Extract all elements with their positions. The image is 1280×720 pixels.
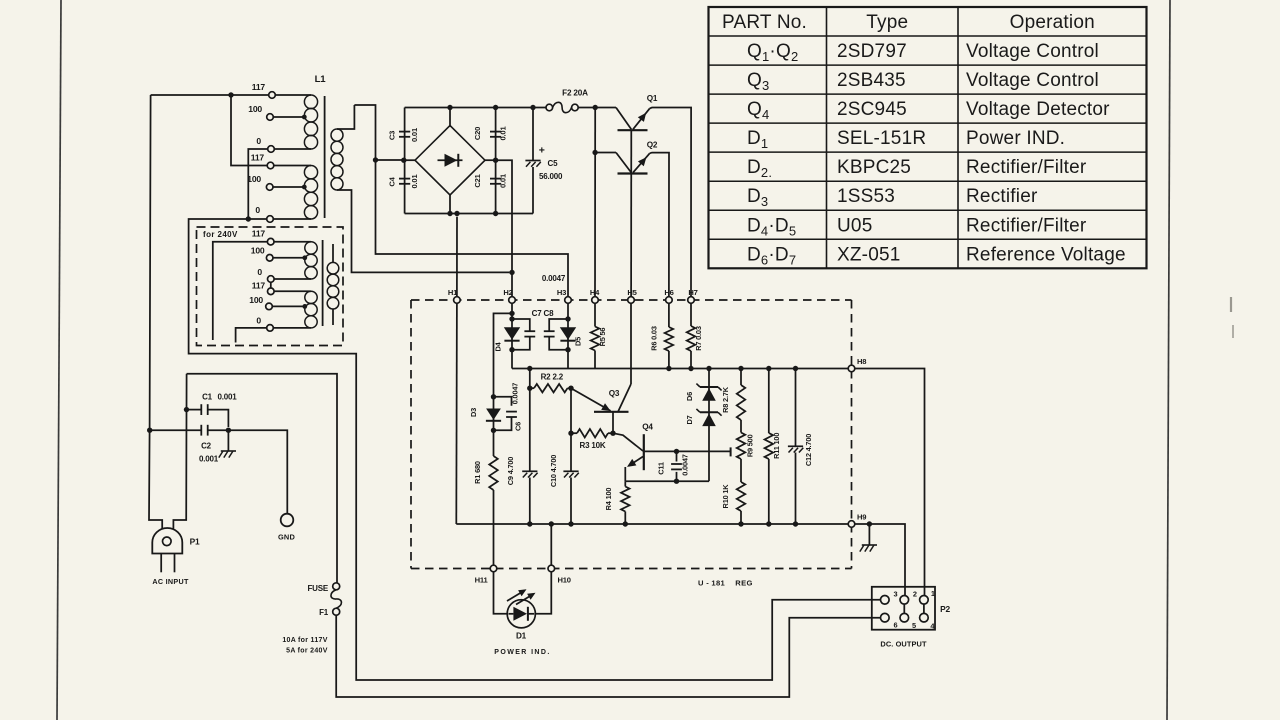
resistor R8	[737, 385, 746, 420]
svg-text:FUSE: FUSE	[307, 584, 328, 593]
svg-text:0.001: 0.001	[199, 455, 219, 464]
svg-text:L1: L1	[315, 74, 327, 85]
wire C9 branch	[529, 369, 531, 472]
node C6 bottom junction	[491, 428, 496, 433]
svg-text:D5: D5	[574, 337, 583, 346]
node H2 wire junction	[509, 270, 514, 275]
wire AC hot down to plug	[149, 95, 162, 529]
svg-text:1SS53: 1SS53	[837, 186, 895, 207]
wire 0 240V B stub	[236, 328, 267, 343]
svg-text:C6: C6	[514, 422, 523, 431]
svg-text:C12 4.700: C12 4.700	[804, 434, 813, 466]
wire bridge top rail	[405, 107, 546, 109]
svg-text:KBPC25: KBPC25	[837, 157, 911, 178]
wire link 0A-117B	[270, 282, 272, 288]
svg-text:0.0047: 0.0047	[542, 274, 566, 283]
svg-text:R1 680: R1 680	[473, 461, 482, 484]
svg-text:Q1·Q2: Q1·Q2	[747, 41, 798, 64]
wire H3 line inside box	[567, 303, 569, 368]
svg-text:117: 117	[252, 82, 266, 92]
core 240V	[322, 240, 324, 326]
wire filter top to fuse	[187, 374, 337, 583]
svg-text:0.0047: 0.0047	[511, 383, 520, 404]
svg-text:0: 0	[256, 136, 261, 146]
wire Q2 emitter to H6 line	[650, 153, 669, 297]
wire bridge right to H2 line	[496, 160, 512, 297]
terminal 0 winding1	[268, 146, 275, 153]
node Q2 collector junction	[592, 150, 597, 155]
LED D1	[494, 572, 508, 614]
parts table	[709, 7, 1147, 268]
wire R11 branch	[768, 369, 770, 434]
svg-text:Voltage Control: Voltage Control	[966, 70, 1099, 91]
pin H5	[628, 297, 635, 304]
svg-text:Voltage Control: Voltage Control	[966, 41, 1099, 62]
svg-text:R3 10K: R3 10K	[580, 441, 606, 450]
svg-text:2SC945: 2SC945	[837, 99, 907, 120]
node bottom rail C9	[527, 521, 532, 526]
svg-text:R7 0.03: R7 0.03	[694, 326, 703, 351]
capacitor C11	[676, 451, 678, 461]
svg-text:2SD797: 2SD797	[837, 41, 907, 62]
pin H7	[688, 297, 695, 304]
wire R1 to H11	[493, 490, 495, 565]
terminal 100 240V winding A	[266, 254, 273, 261]
node C11 bottom junction	[674, 479, 679, 484]
capacitor C10	[563, 470, 578, 472]
svg-text:C5: C5	[548, 159, 559, 168]
terminal 0 winding2	[267, 216, 274, 223]
capacitor C6	[494, 397, 512, 406]
diode D4	[504, 327, 520, 340]
node D4 bottom junction	[509, 347, 514, 352]
wire fuse to DC output pin6	[336, 615, 880, 697]
rectifier D2 bridge diamond	[415, 126, 485, 196]
fuse F2	[546, 104, 553, 111]
svg-text:R9 500: R9 500	[746, 434, 755, 457]
wire R8 branch	[740, 369, 742, 386]
resistor R9	[737, 433, 746, 460]
wire AC neutral down to plug	[173, 374, 186, 529]
svg-text:F2 20A: F2 20A	[562, 89, 588, 98]
svg-text:117: 117	[251, 153, 265, 163]
transistor Q3	[571, 388, 611, 411]
svg-text:D3: D3	[469, 408, 478, 417]
svg-text:AC INPUT: AC INPUT	[152, 577, 189, 586]
svg-text:XZ-051: XZ-051	[837, 244, 901, 265]
svg-text:6: 6	[894, 620, 898, 629]
node R8 top	[738, 366, 743, 371]
node C11 top junction	[674, 449, 679, 454]
svg-text:H7: H7	[688, 288, 697, 297]
capacitor C8	[549, 319, 568, 331]
svg-text:0.01: 0.01	[499, 126, 508, 141]
svg-text:0.0047: 0.0047	[681, 454, 690, 475]
svg-text:C20: C20	[473, 127, 482, 140]
svg-text:C7 C8: C7 C8	[532, 309, 554, 318]
zener D7	[700, 411, 718, 413]
node bridge top	[447, 105, 452, 110]
inductor 240V secondary	[332, 244, 334, 262]
core L1	[324, 96, 326, 218]
node bottom rail C10	[568, 521, 573, 526]
node R10 bottom	[738, 521, 743, 526]
wire 0 bus to DC output pin3	[189, 219, 881, 680]
wire H4 line down	[594, 108, 596, 297]
wire H2 line inside box	[511, 303, 513, 368]
inductor 240V winding A	[274, 241, 311, 243]
svg-text:for 240V: for 240V	[203, 230, 238, 239]
resistor R5	[591, 327, 600, 351]
svg-text:PART No.: PART No.	[722, 12, 807, 33]
node secondary top junction	[373, 157, 378, 162]
pin H3	[565, 297, 572, 304]
svg-text:H8: H8	[857, 357, 866, 366]
inductor winding2 primary	[274, 165, 311, 167]
svg-text:F1: F1	[319, 608, 329, 617]
pin 3 P2	[881, 596, 890, 605]
transistor Q2	[595, 152, 616, 154]
node rail R7	[688, 366, 693, 371]
svg-text:POWER IND.: POWER IND.	[494, 649, 550, 656]
wire H5 base line	[630, 130, 632, 297]
wire node A to H3	[376, 160, 569, 297]
capacitor C1	[187, 409, 201, 411]
wire link pin2-pin5	[903, 604, 905, 613]
pin 6 P2	[881, 613, 890, 622]
svg-text:R8 2.7K: R8 2.7K	[721, 386, 730, 413]
svg-text:100: 100	[248, 104, 262, 114]
svg-text:Type: Type	[866, 12, 908, 33]
svg-text:P2: P2	[940, 604, 950, 614]
svg-text:Operation: Operation	[1010, 12, 1095, 33]
pin 1 P2	[920, 596, 929, 605]
wire H9 to P2 pin2	[855, 524, 905, 595]
wire C10 branch	[570, 388, 572, 471]
box U-181 REG module	[411, 300, 852, 569]
svg-text:H2: H2	[503, 288, 512, 297]
svg-text:H11: H11	[475, 576, 489, 585]
svg-text:0.01: 0.01	[499, 173, 508, 188]
resistor R2	[530, 387, 534, 389]
transistor Q1	[616, 108, 631, 130]
svg-text:0: 0	[257, 267, 262, 277]
wire F2 to Q1 node	[578, 107, 616, 109]
transistor Q4	[613, 433, 643, 451]
node ground junction H9	[867, 521, 872, 526]
wire H10 stub	[550, 524, 552, 565]
node Q3 base junction	[610, 431, 615, 436]
wire 100 tap winding1	[273, 116, 304, 118]
wire bridge left vertical	[404, 108, 406, 214]
wire D3 branch	[494, 313, 513, 456]
node C2 right junction	[226, 428, 231, 433]
svg-text:5A for 240V: 5A for 240V	[286, 647, 328, 654]
svg-text:0: 0	[255, 205, 260, 215]
ground chassis at H9	[868, 524, 870, 545]
connector P1 AC plug	[152, 528, 182, 554]
resistor R4	[624, 481, 626, 486]
svg-text:H9: H9	[857, 513, 866, 522]
svg-text:+: +	[539, 145, 545, 157]
svg-text:SEL-151R: SEL-151R	[837, 128, 926, 149]
svg-text:REG: REG	[735, 578, 752, 587]
svg-text:Rectifier/Filter: Rectifier/Filter	[966, 215, 1087, 236]
capacitor C4	[399, 178, 410, 180]
svg-text:1: 1	[931, 589, 935, 598]
svg-text:C21: C21	[473, 173, 482, 187]
inductor winding1 primary	[275, 94, 311, 96]
terminal 100 winding1	[267, 114, 274, 121]
zener D6	[700, 386, 718, 388]
capacitor C9	[522, 470, 537, 472]
resistor R7	[690, 303, 692, 326]
node D5 bottom junction	[565, 347, 570, 352]
terminal GND	[281, 514, 294, 527]
svg-text:56.000: 56.000	[539, 172, 563, 181]
pin H8	[848, 365, 855, 372]
capacitor C5	[532, 108, 534, 161]
svg-text:2: 2	[913, 589, 917, 598]
terminal 0 240V winding B	[267, 325, 274, 332]
svg-text:Power IND.: Power IND.	[966, 128, 1065, 149]
node C12 top	[793, 366, 798, 371]
wire link pin1-pin4	[923, 604, 925, 613]
svg-text:Q3: Q3	[609, 389, 620, 398]
svg-text:0.01: 0.01	[410, 127, 419, 142]
pin 2 P2	[900, 596, 909, 605]
capacitor C20	[490, 131, 501, 133]
svg-text:C1: C1	[202, 393, 213, 402]
terminal 117 240V winding B	[268, 288, 275, 295]
pin H4	[592, 297, 599, 304]
svg-text:117: 117	[252, 281, 266, 291]
svg-text:0.001: 0.001	[217, 393, 237, 402]
svg-text:C10 4.700: C10 4.700	[549, 455, 558, 487]
resistor R10	[737, 482, 746, 511]
svg-text:H4: H4	[590, 288, 600, 297]
svg-text:0: 0	[256, 315, 261, 325]
terminal 100 240V winding B	[266, 303, 273, 310]
node C8 top junction	[565, 316, 570, 321]
pin H10	[548, 565, 555, 572]
svg-text:5: 5	[912, 621, 916, 630]
node R4 bottom	[623, 521, 628, 526]
node bridge right	[493, 158, 498, 163]
capacitor C3	[399, 131, 410, 133]
pin 5 P2	[900, 613, 909, 622]
node R11 top	[766, 366, 771, 371]
connector P2 box	[872, 587, 935, 630]
wire bridge bottom rail	[405, 213, 533, 215]
svg-text:DC. OUTPUT: DC. OUTPUT	[880, 640, 927, 649]
pin H2	[509, 297, 516, 304]
svg-text:3: 3	[894, 589, 898, 598]
node bridge bottom	[447, 211, 452, 216]
terminal 117 240V winding A	[267, 238, 274, 245]
wire C12 branch	[795, 369, 797, 447]
svg-text:Rectifier: Rectifier	[966, 186, 1038, 207]
svg-text:P1: P1	[190, 537, 200, 547]
node R2 right junction	[568, 386, 573, 391]
resistor R1	[489, 456, 498, 490]
pin H11	[490, 565, 497, 572]
pin 4 P2	[920, 613, 929, 622]
wire 100 tap 240V B	[272, 305, 305, 307]
node Q1 collector junction	[593, 105, 598, 110]
pin H6	[666, 297, 673, 304]
node bottom rail H10	[549, 521, 554, 526]
capacitor C21	[490, 178, 501, 180]
svg-text:H6: H6	[664, 288, 673, 297]
node R2 left junction	[527, 386, 532, 391]
svg-text:Q1: Q1	[647, 94, 658, 103]
svg-text:D6: D6	[685, 392, 694, 401]
wire regulator bottom rail	[456, 523, 848, 525]
terminal 117 winding1	[269, 92, 276, 99]
wire 0 winding1 to junction	[248, 149, 267, 218]
node junction on 117 line	[228, 92, 233, 97]
node bridge left	[401, 158, 406, 163]
svg-text:R2 2.2: R2 2.2	[541, 372, 564, 381]
pin H1	[454, 297, 461, 304]
svg-text:C2: C2	[201, 442, 212, 451]
svg-text:Rectifier/Filter: Rectifier/Filter	[966, 157, 1087, 178]
svg-text:100: 100	[251, 246, 265, 256]
node C12 bottom	[793, 521, 798, 526]
svg-text:Q4: Q4	[642, 423, 653, 432]
wire secondary top to bridge	[354, 105, 403, 160]
diode D5	[560, 327, 576, 340]
svg-text:Q2: Q2	[647, 141, 658, 150]
svg-text:D4: D4	[494, 341, 503, 351]
svg-text:2SB435: 2SB435	[837, 70, 906, 91]
svg-text:R10 1K: R10 1K	[721, 484, 730, 509]
inductor 240V winding B	[274, 290, 311, 292]
svg-text:GND: GND	[278, 533, 295, 542]
svg-text:10A for 117V: 10A for 117V	[282, 637, 327, 644]
svg-text:H5: H5	[627, 288, 637, 297]
wire main positive rail	[512, 368, 848, 370]
svg-text:R6 0.03: R6 0.03	[649, 326, 658, 351]
wire 100 tap winding2	[273, 186, 304, 188]
wire 117 240V stub	[213, 242, 268, 340]
node 0-bus junction	[246, 216, 251, 221]
node R11 bottom	[766, 521, 771, 526]
pin H9	[848, 521, 855, 528]
svg-text:D7: D7	[685, 415, 694, 424]
diode symbol inside bridge	[438, 159, 463, 161]
resistor R11	[765, 433, 774, 459]
resistor R6	[668, 303, 670, 327]
wire Q4 emitter bus	[625, 480, 709, 482]
resistor R3	[571, 432, 577, 434]
ground chassis at C2	[227, 430, 229, 451]
node C7 top junction	[509, 316, 514, 321]
svg-text:C3: C3	[388, 131, 397, 140]
node C1 left junction	[184, 407, 189, 412]
wire bridge right vertical	[495, 108, 497, 214]
wire Q4 collector to wiper	[677, 450, 731, 452]
diode D3	[486, 409, 501, 420]
wire Q1 emitter to H7 line	[650, 108, 691, 297]
terminal 117 winding2	[267, 162, 274, 169]
capacitor C2	[147, 428, 152, 433]
wire zener branch	[708, 369, 710, 482]
node R3 left junction	[568, 431, 573, 436]
inductor secondary L1	[337, 105, 354, 129]
svg-text:C9 4.700: C9 4.700	[506, 457, 515, 485]
box for 240V	[197, 227, 344, 346]
wire H8 to P2 pin1	[855, 369, 925, 596]
svg-text:U - 181: U - 181	[698, 578, 725, 587]
node C6 top junction	[491, 394, 496, 399]
fuse F1	[333, 583, 340, 590]
svg-text:H10: H10	[558, 576, 571, 585]
svg-text:C4: C4	[388, 176, 397, 186]
node rail R6	[666, 366, 671, 371]
svg-text:C11: C11	[657, 462, 666, 475]
svg-text:R4 100: R4 100	[604, 488, 613, 511]
wire H1 line to bottom rail	[456, 217, 458, 297]
svg-text:D1: D1	[516, 632, 527, 641]
svg-text:100: 100	[247, 174, 261, 184]
capacitor C12	[788, 445, 803, 447]
capacitor C7	[512, 319, 530, 331]
node D3 branch junction	[509, 311, 514, 316]
svg-text:H3: H3	[557, 288, 566, 297]
svg-text:Voltage Detector: Voltage Detector	[966, 99, 1110, 120]
terminal 100 winding2	[266, 184, 273, 191]
wire junction to second 117 tap	[231, 95, 267, 166]
wire 117 line top	[151, 94, 269, 96]
svg-text:U05: U05	[837, 215, 872, 236]
svg-text:100: 100	[249, 295, 263, 305]
svg-text:0.01: 0.01	[410, 174, 419, 189]
node rail C9 junction	[527, 366, 532, 371]
svg-text:R5 56: R5 56	[598, 328, 607, 347]
node zener top	[706, 366, 711, 371]
svg-text:117: 117	[252, 229, 266, 239]
terminal 0 240V winding A	[268, 276, 275, 283]
wire 100 tap 240V A	[273, 257, 305, 259]
svg-text:Reference Voltage: Reference Voltage	[966, 244, 1126, 265]
svg-text:R11 100: R11 100	[772, 433, 781, 459]
